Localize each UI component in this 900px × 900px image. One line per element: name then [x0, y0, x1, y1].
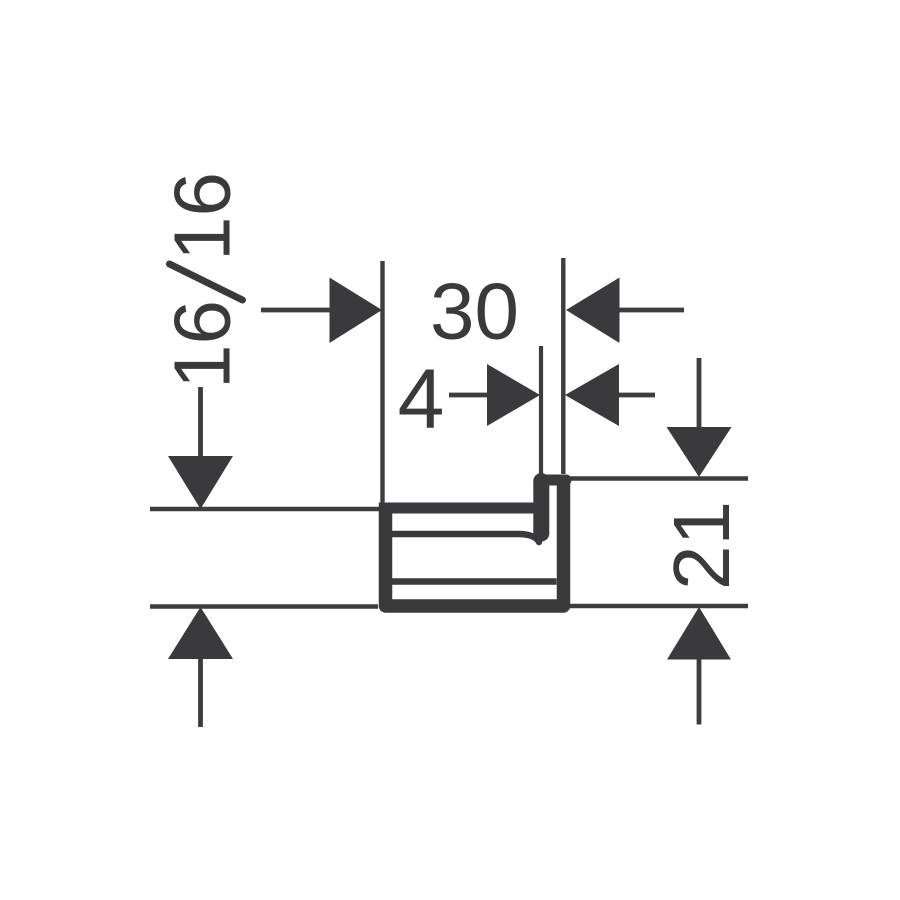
- svg-text:16: 16: [158, 172, 247, 261]
- arrow: 21 down arrow: [667, 427, 732, 477]
- svg-text:16: 16: [158, 300, 247, 389]
- wire: 16/16 dimension tail: [198, 387, 203, 456]
- svg-text:4: 4: [398, 352, 445, 446]
- wire: extension line at x=563 (right edge of profile): [561, 258, 565, 474]
- profile: outer contour (left wall, bottom, right wall): [386, 480, 564, 606]
- wire: right horizontal datum line (top of clip level): [570, 476, 748, 481]
- wire: 21 upper tail: [697, 358, 702, 428]
- arrow: 4 right-pointing arrow: [487, 364, 540, 426]
- profile: inner bottom wall line: [392, 578, 557, 585]
- svg-text:30: 30: [430, 267, 519, 356]
- wire: 4 left tail: [449, 393, 488, 398]
- wire: 30 left tail: [261, 308, 331, 313]
- wire: right horizontal datum line (bottom face level): [570, 604, 748, 609]
- arrow: 16/16 up arrow: [168, 607, 233, 659]
- arrow: 30 left-pointing arrow: [566, 278, 620, 344]
- svg-text:21: 21: [657, 501, 746, 590]
- profile: top flange outer stroke: [386, 503, 538, 514]
- wire: 21 lower tail: [697, 659, 702, 725]
- wire: extension line at x=383 (left edge of profile): [380, 261, 384, 505]
- wire: left horizontal datum line (bottom face level): [150, 604, 378, 609]
- arrow: 30 right-pointing arrow: [330, 278, 383, 344]
- profile: inner top lip line with J-hook: [392, 534, 540, 542]
- dimension 16/16 label: wide slash: [170, 264, 243, 300]
- arrow: 16/16 down arrow: [168, 456, 233, 509]
- wire: left horizontal datum line (top face level): [150, 507, 380, 512]
- arrow: 4 left-pointing arrow: [565, 364, 619, 426]
- wire: extension line at x=541 (hook lip): [539, 346, 543, 476]
- wire: 30 right tail: [618, 308, 684, 313]
- arrow: 21 up arrow: [667, 607, 731, 660]
- profile: hook strip below cap: [533, 481, 549, 534]
- wire: 4 right tail: [618, 393, 655, 398]
- profile: top mounting cap: [545, 475, 566, 486]
- wire: lower-left arrow tail: [198, 659, 203, 727]
